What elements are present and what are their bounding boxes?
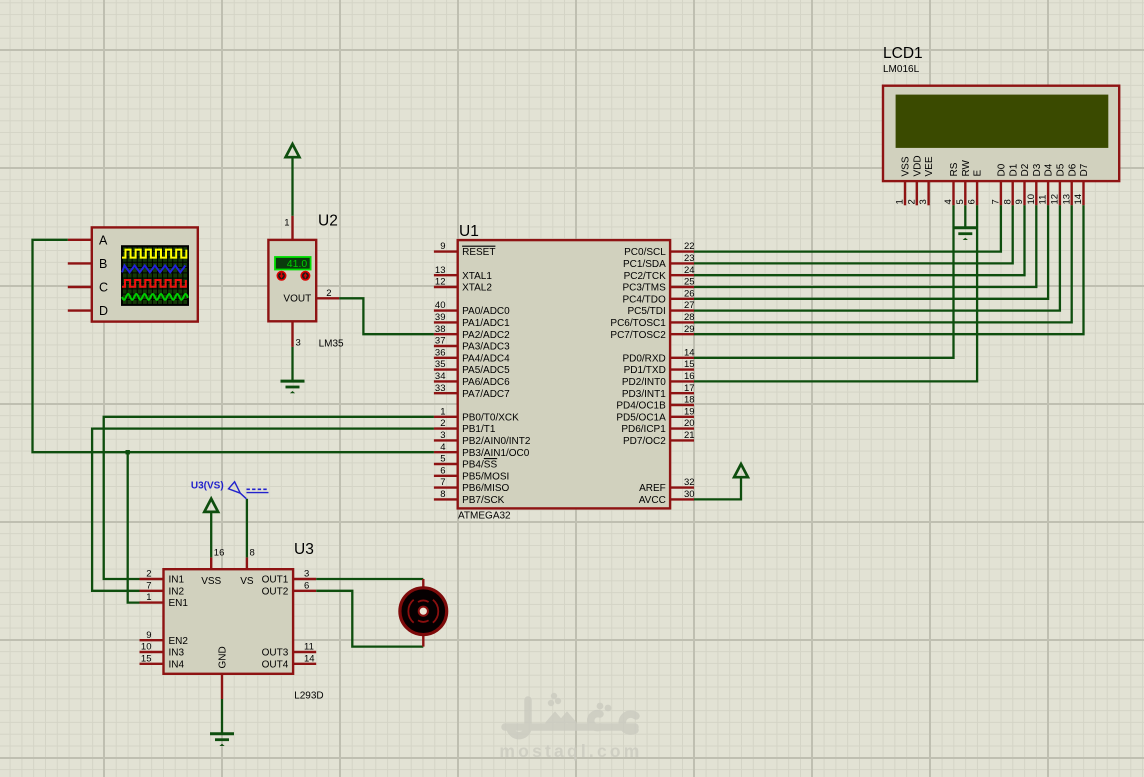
wire U3 OUT1 to motor <box>316 578 423 580</box>
svg-text:1: 1 <box>440 406 445 417</box>
U3 pin 9 (EN2) <box>140 630 189 647</box>
svg-text:7: 7 <box>146 580 151 591</box>
svg-text:EN1: EN1 <box>169 598 189 609</box>
wire U3 VSS to power <box>210 512 212 558</box>
U2 value label LM35 <box>319 338 344 349</box>
U3 ref label <box>294 541 314 558</box>
svg-text:22: 22 <box>684 241 695 252</box>
wire U1 PC0 to LCD D0 <box>694 205 1001 251</box>
LCD1 ref label <box>883 45 923 62</box>
LCD1 pin 13 (D6) <box>1061 163 1078 205</box>
svg-text:1: 1 <box>284 217 289 228</box>
U1 pin 30 (AVCC) <box>639 489 695 506</box>
svg-text:VS: VS <box>240 576 254 587</box>
svg-text:PC0/SCL: PC0/SCL <box>624 247 666 258</box>
U1 value label ATMEGA32 <box>458 510 511 521</box>
svg-text:IN4: IN4 <box>169 659 185 670</box>
U1 pin 12 (XTAL2) <box>434 277 492 294</box>
motor bottom pin <box>422 633 424 647</box>
U1 pin 8 (PB7/SCK) <box>434 489 505 506</box>
U3 pin 16 (VSS) <box>201 548 224 588</box>
svg-text:D3: D3 <box>1032 163 1043 176</box>
svg-text:AREF: AREF <box>639 483 666 494</box>
U3 value label L293D <box>294 691 323 702</box>
svg-text:PB1/T1: PB1/T1 <box>462 424 496 435</box>
U3 pin 3 (OUT1) <box>262 569 317 586</box>
oscilloscope pin C <box>68 281 108 295</box>
U1 pin 6 (PB5/MOSI) <box>434 465 509 482</box>
svg-text:7: 7 <box>440 477 445 488</box>
svg-text:PC7/TOSC2: PC7/TOSC2 <box>610 330 666 341</box>
wire U1 PB1 to U3 IN2 <box>92 429 434 591</box>
svg-text:PB0/T0/XCK: PB0/T0/XCK <box>462 412 519 423</box>
svg-text:VEE: VEE <box>924 156 935 176</box>
power symbol U3 VSS <box>204 499 218 512</box>
svg-text:11: 11 <box>1038 195 1049 205</box>
svg-text:16: 16 <box>214 548 225 559</box>
U1 pin 28 (PC6/TOSC1) <box>610 312 694 329</box>
svg-text:IN1: IN1 <box>169 575 185 586</box>
svg-text:41.0: 41.0 <box>287 258 308 270</box>
LCD1 pin 14 (D7) <box>1073 163 1090 205</box>
LCD1 pin 8 (D1) <box>1002 163 1019 205</box>
svg-text:19: 19 <box>684 406 695 417</box>
svg-text:C: C <box>99 281 108 295</box>
svg-text:2: 2 <box>906 199 917 204</box>
svg-text:PB3/AIN1/OC0: PB3/AIN1/OC0 <box>462 448 530 459</box>
U1 pin 37 (PA3/ADC3) <box>434 336 510 353</box>
svg-text:9: 9 <box>440 241 445 252</box>
U2 up knob <box>300 271 310 281</box>
svg-text:OUT4: OUT4 <box>262 659 289 670</box>
svg-text:23: 23 <box>684 253 695 264</box>
svg-text:8: 8 <box>250 548 255 559</box>
L293D U3 body <box>164 569 294 674</box>
svg-text:27: 27 <box>684 300 695 311</box>
svg-text:D5: D5 <box>1056 163 1067 176</box>
U1 pin 23 (PC1/SDA) <box>623 253 695 270</box>
svg-text:PD3/INT1: PD3/INT1 <box>622 389 666 400</box>
U1 pin 7 (PB6/MISO) <box>434 477 510 494</box>
svg-text:3: 3 <box>918 199 929 204</box>
U1 ref label <box>459 223 479 240</box>
svg-text:PC4/TDO: PC4/TDO <box>622 294 666 305</box>
svg-text:29: 29 <box>684 324 695 335</box>
svg-text:PA4/ADC4: PA4/ADC4 <box>462 353 510 364</box>
LCD1 pin 6 (E) <box>967 170 984 206</box>
U1 pin 5 (PB4/SS) <box>434 454 498 471</box>
svg-text:8: 8 <box>1002 199 1013 204</box>
oscilloscope body <box>92 227 198 321</box>
wire U3 VS up <box>246 499 248 558</box>
svg-text:2: 2 <box>326 288 331 299</box>
U3 pin 14 (OUT4) <box>262 653 317 670</box>
svg-text:U3: U3 <box>294 541 314 558</box>
svg-text:24: 24 <box>684 265 695 276</box>
svg-text:18: 18 <box>684 395 695 406</box>
U2 pin 1 <box>284 216 292 240</box>
svg-text:28: 28 <box>684 312 695 323</box>
wire U2 pin1 to power <box>291 157 293 216</box>
svg-text:PB5/MOSI: PB5/MOSI <box>462 471 509 482</box>
wire U1 PD2 to LCD E <box>694 205 977 381</box>
svg-text:5: 5 <box>955 199 966 204</box>
svg-text:14: 14 <box>684 347 695 358</box>
svg-text:L293D: L293D <box>294 691 323 702</box>
U2 down knob <box>277 271 287 281</box>
U1 pin 20 (PD6/ICP1) <box>621 418 694 435</box>
svg-text:14: 14 <box>1073 194 1084 205</box>
wire U1 PC3 to LCD D3 <box>694 205 1036 287</box>
wire U2 VOUT to U1 PA2 <box>339 298 434 334</box>
svg-text:20: 20 <box>684 418 695 429</box>
U1 pin 29 (PC7/TOSC2) <box>610 324 694 341</box>
svg-text:PB7/SCK: PB7/SCK <box>462 495 505 506</box>
LCD1 pin 3 (VEE) <box>918 156 935 205</box>
svg-text:10: 10 <box>1026 194 1037 205</box>
U1 pin 32 (AREF) <box>639 477 694 494</box>
svg-text:40: 40 <box>435 300 446 311</box>
U1 pin 40 (PA0/ADC0) <box>434 300 510 317</box>
svg-text:30: 30 <box>684 489 695 500</box>
svg-text:LM35: LM35 <box>319 338 344 349</box>
svg-text:34: 34 <box>435 371 446 382</box>
wire U1 PD0 to LCD RS <box>694 205 954 357</box>
LCD1 pin 4 (RS) <box>943 162 960 205</box>
svg-text:EN2: EN2 <box>169 636 189 647</box>
LCD1 pin 5 (RW) <box>955 159 972 205</box>
svg-text:12: 12 <box>435 277 446 288</box>
svg-text:A: A <box>99 233 108 247</box>
LCD1 pin 9 (D2) <box>1014 163 1031 205</box>
LCD1 body <box>883 86 1119 181</box>
svg-text:26: 26 <box>684 288 695 299</box>
svg-text:VSS: VSS <box>901 156 912 176</box>
svg-text:4: 4 <box>440 442 445 453</box>
U1 pin 26 (PC4/TDO) <box>622 288 694 305</box>
svg-text:15: 15 <box>684 359 695 370</box>
U1 pin 24 (PC2/TCK) <box>624 265 695 282</box>
svg-text:PD6/ICP1: PD6/ICP1 <box>621 424 666 435</box>
wire LCD RW to ground <box>964 205 966 227</box>
svg-text:VOUT: VOUT <box>283 294 311 305</box>
svg-text:3: 3 <box>304 569 309 580</box>
svg-text:LM016L: LM016L <box>883 64 920 75</box>
U1 pin 39 (PA1/ADC1) <box>434 312 510 329</box>
wire U1 AVCC to power <box>694 477 741 499</box>
svg-text:RS: RS <box>949 162 960 176</box>
U1 pin 22 (PC0/SCL) <box>624 241 694 258</box>
svg-text:21: 21 <box>684 430 695 441</box>
U3 pin 15 (IN4) <box>140 653 185 670</box>
U1 pin 17 (PD3/INT1) <box>622 383 695 400</box>
svg-text:OUT1: OUT1 <box>262 575 289 586</box>
LCD1 pin 11 (D4) <box>1038 163 1055 205</box>
oscilloscope pin A <box>68 233 108 247</box>
svg-text:OUT3: OUT3 <box>262 648 289 659</box>
svg-text:D: D <box>99 304 108 318</box>
svg-text:VDD: VDD <box>912 155 923 176</box>
U2 pin 2 (VOUT) <box>316 288 339 299</box>
svg-text:RESET: RESET <box>462 247 495 258</box>
svg-text:6: 6 <box>967 199 978 204</box>
svg-text:D0: D0 <box>997 163 1008 176</box>
U1 pin 4 (PB3/AIN1/OC0) <box>434 442 530 459</box>
svg-text:14: 14 <box>304 653 315 664</box>
wire U1 PC2 to LCD D2 <box>694 205 1025 275</box>
svg-text:13: 13 <box>1061 194 1072 205</box>
wire U1 PC4 to LCD D4 <box>694 205 1048 298</box>
svg-text:PD5/OC1A: PD5/OC1A <box>616 412 666 423</box>
U2 display 41.0 <box>275 257 311 270</box>
svg-text:33: 33 <box>435 383 446 394</box>
svg-text:PA7/ADC7: PA7/ADC7 <box>462 389 510 400</box>
svg-text:PA6/ADC6: PA6/ADC6 <box>462 377 510 388</box>
svg-text:B: B <box>99 257 107 271</box>
svg-text:PD0/RXD: PD0/RXD <box>622 353 665 364</box>
svg-text:PD2/INT0: PD2/INT0 <box>622 377 666 388</box>
power symbol U2 VCC <box>286 144 300 157</box>
LCD1 pin 10 (D3) <box>1026 163 1043 205</box>
svg-text:6: 6 <box>304 580 309 591</box>
U1 pin 34 (PA6/ADC6) <box>434 371 510 388</box>
U1 pin 25 (PC3/TMS) <box>622 277 694 294</box>
svg-text:PB6/MISO: PB6/MISO <box>462 483 509 494</box>
wire U2 pin3 to ground <box>291 347 293 381</box>
U1 pin 1 (PB0/T0/XCK) <box>434 406 519 423</box>
wire U1 PC6 to LCD D6 <box>694 205 1072 322</box>
U1 pin 18 (PD4/OC1B) <box>616 395 694 412</box>
U1 pin 35 (PA5/ADC5) <box>434 359 510 376</box>
motor <box>400 588 447 635</box>
svg-text:U1: U1 <box>459 223 479 240</box>
U1 pin 19 (PD5/OC1A) <box>616 406 694 423</box>
svg-text:2: 2 <box>146 569 151 580</box>
LM35 U2 body <box>268 240 316 321</box>
ground U2 <box>281 381 305 393</box>
U1 pin 15 (PD1/TXD) <box>624 359 695 376</box>
ATMEGA32 U1 body <box>458 240 670 508</box>
wire U3 GND to ground <box>221 699 223 734</box>
svg-text:PA2/ADC2: PA2/ADC2 <box>462 330 510 341</box>
svg-text:PB2/AIN0/INT2: PB2/AIN0/INT2 <box>462 436 531 447</box>
ground LCD RW <box>953 228 977 240</box>
svg-text:17: 17 <box>684 383 695 394</box>
oscilloscope screen <box>122 246 188 305</box>
svg-text:PD4/OC1B: PD4/OC1B <box>616 401 666 412</box>
motor top pin <box>422 579 424 589</box>
U3 pin 10 (IN3) <box>140 642 185 659</box>
U1 pin 33 (PA7/ADC7) <box>434 383 510 400</box>
svg-text:LCD1: LCD1 <box>883 45 923 62</box>
U1 pin 27 (PC5/TDI) <box>627 300 694 317</box>
svg-text:15: 15 <box>141 653 152 664</box>
svg-text:PD1/TXD: PD1/TXD <box>624 365 666 376</box>
U3 pin 8 (VS) <box>240 548 255 588</box>
svg-text:IN2: IN2 <box>169 586 185 597</box>
svg-text:GND: GND <box>218 646 229 668</box>
svg-text:PA5/ADC5: PA5/ADC5 <box>462 365 510 376</box>
power symbol AVCC <box>734 464 748 477</box>
svg-text:7: 7 <box>991 199 1002 204</box>
wire U1 PB0 to U3 IN1 <box>104 417 434 579</box>
svg-text:38: 38 <box>435 324 446 335</box>
U3 pin 11 (OUT3) <box>262 642 317 659</box>
svg-text:D7: D7 <box>1079 163 1090 176</box>
U1 pin 2 (PB1/T1) <box>434 418 496 435</box>
LCD1 value label LM016L <box>883 64 920 75</box>
svg-text:PA0/ADC0: PA0/ADC0 <box>462 306 510 317</box>
svg-text:39: 39 <box>435 312 446 323</box>
svg-text:2: 2 <box>440 418 445 429</box>
svg-text:OUT2: OUT2 <box>262 586 289 597</box>
svg-text:37: 37 <box>435 336 446 347</box>
U3 pin GND <box>218 646 229 699</box>
svg-text:6: 6 <box>440 465 445 476</box>
svg-text:AVCC: AVCC <box>639 495 666 506</box>
svg-text:35: 35 <box>435 359 446 370</box>
oscilloscope pin B <box>68 257 108 271</box>
svg-text:VSS: VSS <box>201 576 221 587</box>
U1 pin 13 (XTAL1) <box>434 265 492 282</box>
LCD1 pin 12 (D5) <box>1050 163 1067 205</box>
LCD1 pin 1 (VSS) <box>895 156 912 205</box>
LCD1 screen <box>896 95 1109 148</box>
svg-text:16: 16 <box>684 371 695 382</box>
svg-text:3: 3 <box>296 337 301 348</box>
svg-text:RW: RW <box>961 159 972 176</box>
svg-text:E: E <box>973 170 984 177</box>
svg-text:D2: D2 <box>1020 163 1031 176</box>
junction node PB3/EN1 <box>126 450 130 454</box>
U2 VOUT label <box>283 294 311 305</box>
svg-text:U3(VS): U3(VS) <box>191 480 224 491</box>
oscilloscope pin D <box>68 304 108 318</box>
wire U1 PC1 to LCD D1 <box>694 205 1013 263</box>
svg-text:10: 10 <box>141 642 152 653</box>
svg-text:PC6/TOSC1: PC6/TOSC1 <box>610 318 666 329</box>
U1 pin 38 (PA2/ADC2) <box>434 324 510 341</box>
svg-text:PD7/OC2: PD7/OC2 <box>623 436 666 447</box>
terminal label U3(VS) <box>191 480 269 499</box>
wire scope A to U1 PB3 <box>33 240 434 452</box>
U1 pin 14 (PD0/RXD) <box>622 347 694 364</box>
svg-text:13: 13 <box>435 265 446 276</box>
svg-text:D6: D6 <box>1067 163 1078 176</box>
U1 pin 16 (PD2/INT0) <box>622 371 695 388</box>
U1 pin 3 (PB2/AIN0/INT2) <box>434 430 531 447</box>
U3 pin 2 (IN1) <box>140 569 185 586</box>
wire U1 PC5 to LCD D5 <box>694 205 1060 310</box>
svg-text:PB4/SS: PB4/SS <box>462 460 497 471</box>
svg-text:D1: D1 <box>1008 163 1019 176</box>
svg-text:12: 12 <box>1050 194 1061 205</box>
svg-text:PC1/SDA: PC1/SDA <box>623 259 666 270</box>
svg-text:PA1/ADC1: PA1/ADC1 <box>462 318 510 329</box>
svg-text:32: 32 <box>684 477 695 488</box>
U3 pin 6 (OUT2) <box>262 580 317 597</box>
wire U1 PC7 to LCD D7 <box>694 205 1084 334</box>
svg-text:1: 1 <box>895 199 906 204</box>
U1 pin 9 (RESET) <box>434 241 496 258</box>
ground U3 <box>210 734 234 746</box>
U3 pin 7 (IN2) <box>140 580 185 597</box>
wire junction to U3 EN1 <box>128 452 140 602</box>
LCD1 pin 7 (D0) <box>991 163 1008 205</box>
svg-text:36: 36 <box>435 347 446 358</box>
svg-text:25: 25 <box>684 277 695 288</box>
U2 pin 3 <box>293 321 301 348</box>
wire U3 OUT2 to motor <box>316 591 423 647</box>
svg-text:D4: D4 <box>1044 163 1055 176</box>
U1 pin 36 (PA4/ADC4) <box>434 347 510 364</box>
svg-text:PA3/ADC3: PA3/ADC3 <box>462 342 510 353</box>
svg-text:8: 8 <box>440 489 445 500</box>
svg-text:XTAL1: XTAL1 <box>462 271 492 282</box>
svg-text:11: 11 <box>304 642 314 653</box>
svg-text:ATMEGA32: ATMEGA32 <box>458 510 511 521</box>
svg-text:3: 3 <box>440 430 445 441</box>
svg-text:mostaql.com: mostaql.com <box>499 741 642 761</box>
svg-text:5: 5 <box>440 454 445 465</box>
svg-text:XTAL2: XTAL2 <box>462 283 492 294</box>
svg-text:IN3: IN3 <box>169 648 185 659</box>
svg-text:4: 4 <box>943 199 954 204</box>
svg-text:PC2/TCK: PC2/TCK <box>624 271 667 282</box>
U2 ref label <box>318 213 338 230</box>
svg-text:1: 1 <box>146 592 151 603</box>
svg-text:PC5/TDI: PC5/TDI <box>627 306 665 317</box>
svg-text:PC3/TMS: PC3/TMS <box>622 283 666 294</box>
svg-text:9: 9 <box>146 630 151 641</box>
U3 pin 1 (EN1) <box>140 592 189 609</box>
svg-text:9: 9 <box>1014 199 1025 204</box>
watermark mostaql <box>499 693 642 761</box>
U1 pin 21 (PD7/OC2) <box>623 430 695 447</box>
LCD1 pin 2 (VDD) <box>906 155 923 205</box>
svg-text:U2: U2 <box>318 213 338 230</box>
